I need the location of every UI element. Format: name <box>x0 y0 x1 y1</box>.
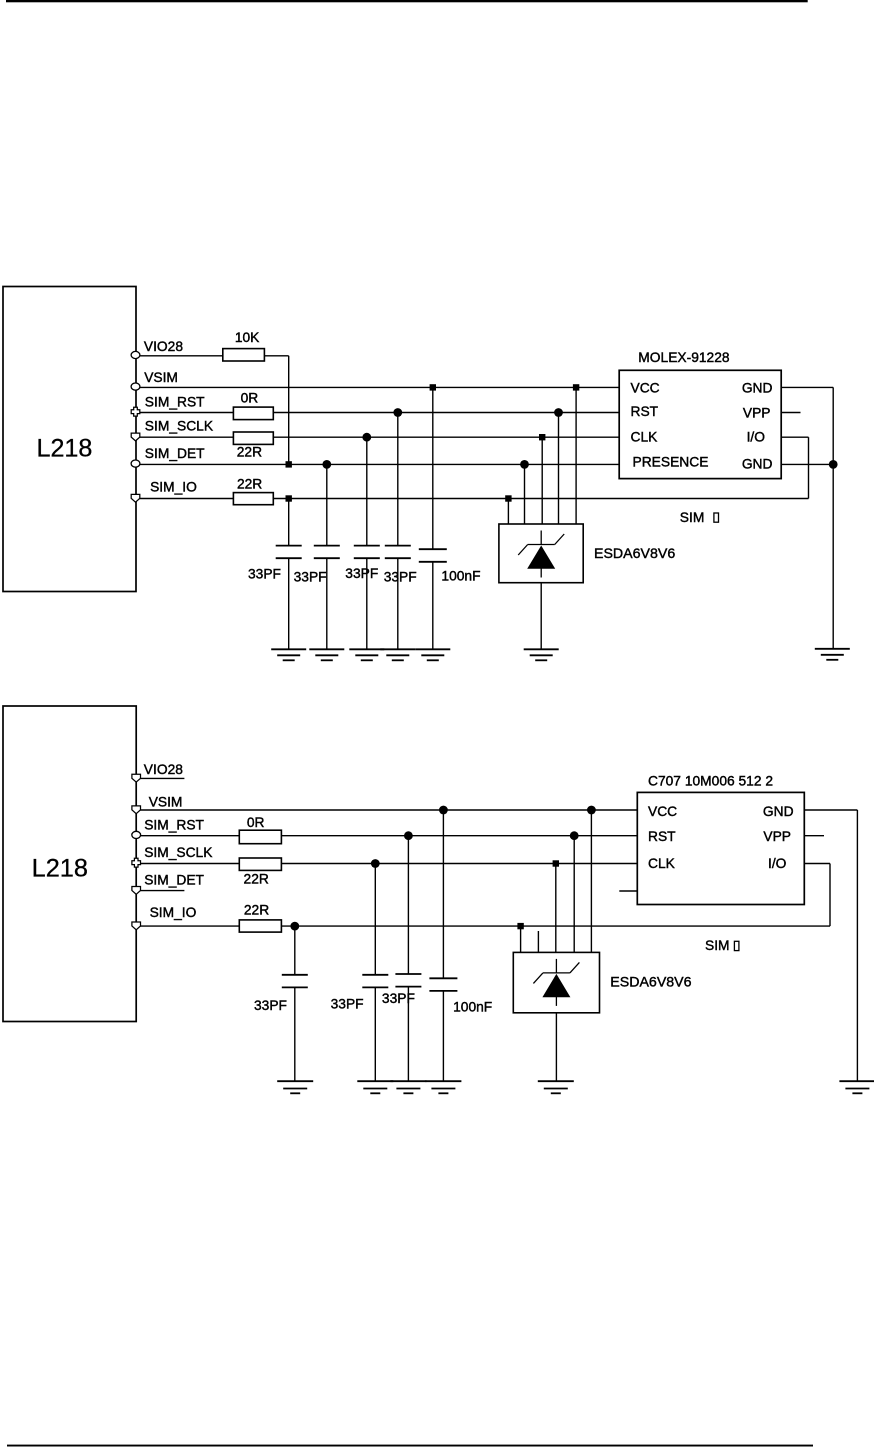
svg-text:L218: L218 <box>36 435 92 463</box>
junction SIM_IO / C1 <box>286 495 292 501</box>
svg-text:RST: RST <box>648 829 676 844</box>
TVS D2 ESDA6V8V6 body <box>513 952 599 1012</box>
svg-text:SIM_DET: SIM_DET <box>144 873 204 888</box>
top horizontal rule <box>6 0 808 2</box>
capacitor C5 100nF <box>419 549 447 562</box>
ground GND rail 2 <box>839 1081 874 1093</box>
wire C9 bottom <box>442 991 444 1081</box>
wire C1 top <box>288 499 290 546</box>
wire GND rail vertical <box>832 387 834 648</box>
wire C5 top <box>432 387 434 549</box>
pin marker VIO28 2 <box>132 774 141 782</box>
wire VSIM net <box>140 386 620 388</box>
capacitor C3 33PF <box>354 546 380 559</box>
wire J2 GND to rail <box>804 809 858 811</box>
junction SIM_RST / C8 <box>404 831 413 840</box>
bottom horizontal rule <box>7 1445 813 1447</box>
wire R6 to J2 CLK <box>281 863 637 865</box>
svg-text:22R: 22R <box>244 872 269 887</box>
wire J2 I/O horizontal <box>804 863 830 865</box>
wire D1 pin1 <box>507 499 509 525</box>
wire GND rail 2 vertical <box>856 810 858 1081</box>
svg-text:33PF: 33PF <box>382 991 415 1006</box>
junction VSIM / D1 <box>573 384 579 390</box>
pin marker SIM_DET 2 <box>132 887 141 895</box>
TVS D1 ESDA6V8V6 body <box>499 524 583 583</box>
ground C3 <box>349 649 384 660</box>
wire D2 ground pin <box>555 1013 557 1081</box>
wire D2 pin3 <box>555 864 557 953</box>
junction SIM_DET / D1 <box>520 460 529 469</box>
svg-text:100nF: 100nF <box>453 999 492 1014</box>
capacitor C2 33PF <box>314 546 340 559</box>
glyph box (SIM card CJK) <box>714 513 719 522</box>
TVS D1 ESDA6V8V6 TVS symbol <box>518 531 564 578</box>
wire SIM_IO pin to R4 <box>140 498 234 500</box>
resistor R2 0R <box>233 407 273 420</box>
wire VIO28 pin to R1 <box>140 355 223 357</box>
svg-text:100nF: 100nF <box>441 569 480 584</box>
resistor R7 22R <box>239 920 281 932</box>
svg-text:10K: 10K <box>235 330 260 345</box>
svg-text:I/O: I/O <box>747 430 766 445</box>
wire D1 ground pin <box>540 583 542 650</box>
svg-text:I/O: I/O <box>768 856 787 871</box>
svg-text:VSIM: VSIM <box>144 370 178 385</box>
pin marker SIM_RST <box>131 407 140 416</box>
wire C8 top <box>407 836 409 974</box>
wire C5 bottom <box>432 562 434 650</box>
junction SIM_DET / C2 <box>322 460 331 469</box>
capacitor C7 33PF <box>362 975 388 988</box>
wire J2 VPP stub <box>804 835 824 837</box>
svg-text:0R: 0R <box>247 815 265 830</box>
wire SIM_RST pin to R5 <box>140 835 239 837</box>
svg-text:33PF: 33PF <box>345 566 378 581</box>
junction SIM_IO / D1 <box>505 495 511 501</box>
junction SIM_SCLK / D1 <box>539 434 545 440</box>
svg-text:SIM_SCLK: SIM_SCLK <box>145 419 214 434</box>
junction SIM_RST / C4 <box>393 408 402 417</box>
svg-text:RST: RST <box>631 404 659 419</box>
wire VIO28 stub <box>140 777 184 779</box>
wire 10K pullup vertical <box>288 356 290 465</box>
junction SIM_RST / D2 <box>570 831 579 840</box>
svg-text:22R: 22R <box>244 902 269 917</box>
wire C6 bottom <box>294 987 296 1081</box>
wire J2 presence stub <box>619 890 637 892</box>
svg-text:MOLEX-91228: MOLEX-91228 <box>638 350 730 365</box>
junction VSIM / D2 <box>587 806 596 815</box>
svg-text:SIM: SIM <box>705 938 730 953</box>
wire D2 pin4 <box>573 836 575 953</box>
wire J1 I/O vertical <box>808 437 810 498</box>
wire J1 VPP stub <box>781 412 800 414</box>
capacitor C6 33PF <box>282 975 308 988</box>
svg-text:GND: GND <box>742 457 773 472</box>
capacitor C1 33PF <box>276 546 302 559</box>
pin marker VSIM 2 <box>132 806 141 814</box>
capacitor C9 100nF <box>429 978 457 991</box>
svg-text:VCC: VCC <box>648 804 677 819</box>
pin marker VIO28 <box>131 351 140 358</box>
svg-text:33PF: 33PF <box>294 570 327 585</box>
resistor R3 22R <box>233 432 273 444</box>
junction VSIM / C9 <box>439 806 448 815</box>
svg-text:C707 10M006 512 2: C707 10M006 512 2 <box>648 774 773 789</box>
svg-text:SIM_SCLK: SIM_SCLK <box>144 845 213 860</box>
pin marker SIM_IO 2 <box>132 922 141 930</box>
wire SIM_SCLK pin to R3 <box>140 436 234 438</box>
junction SIM_IO / C6 <box>290 922 299 931</box>
svg-text:22R: 22R <box>237 477 262 492</box>
ground GND rail <box>815 649 850 660</box>
svg-text:VSIM: VSIM <box>149 795 183 810</box>
svg-text:PRESENCE: PRESENCE <box>633 455 709 470</box>
wire J1 I/O horizontal <box>781 436 808 438</box>
svg-text:SIM_RST: SIM_RST <box>145 395 205 410</box>
ground C5 <box>415 649 450 660</box>
wire R1 to corner <box>264 355 288 357</box>
wire SIM_SCLK pin to R6 <box>140 863 239 865</box>
svg-text:L218: L218 <box>32 855 88 883</box>
resistor R4 22R <box>233 493 273 505</box>
wire SIM_RST pin to R2 <box>140 412 234 414</box>
junction GND rail / J1 GND bottom <box>829 460 838 469</box>
ground C1 <box>271 649 306 660</box>
wire J1 GND bottom <box>781 463 833 465</box>
wire D2 pin1 <box>520 926 522 952</box>
resistor R5 0R <box>239 830 281 844</box>
svg-text:VPP: VPP <box>743 405 771 420</box>
svg-text:33PF: 33PF <box>248 567 281 582</box>
wire C2 top <box>326 464 328 545</box>
wire SIM_DET stub <box>140 890 184 892</box>
wire SIM_IO net <box>273 498 808 500</box>
svg-text:33PF: 33PF <box>254 998 287 1013</box>
ground D2 <box>538 1081 574 1093</box>
wire C8 bottom <box>407 987 409 1082</box>
pin marker SIM_SCLK 2 <box>132 858 141 867</box>
wire C3 bottom <box>366 558 368 649</box>
wire C7 bottom <box>374 987 376 1081</box>
glyph box (SIM card CJK) 2 <box>734 941 739 950</box>
wire R5 to J2 RST <box>281 835 637 837</box>
svg-text:ESDA6V8V6: ESDA6V8V6 <box>594 546 675 562</box>
junction SIM_SCLK / C3 <box>362 433 371 442</box>
pin marker SIM_SCLK <box>131 433 140 441</box>
svg-text:VPP: VPP <box>763 829 791 844</box>
svg-text:33PF: 33PF <box>331 997 364 1012</box>
connector J1 MOLEX-91228 body <box>619 370 781 478</box>
svg-text:VIO28: VIO28 <box>144 339 183 354</box>
wire D1 pin3 <box>541 437 543 524</box>
svg-text:CLK: CLK <box>648 856 676 871</box>
wire C3 top <box>366 437 368 545</box>
ground C4 <box>380 649 415 660</box>
pin marker VSIM <box>131 383 140 390</box>
svg-text:0R: 0R <box>241 391 259 406</box>
wire D2 pin2 stub <box>537 931 539 952</box>
ground C7 <box>357 1081 393 1093</box>
wire SIM_IO pin to R7 <box>140 925 239 927</box>
svg-text:CLK: CLK <box>631 429 659 444</box>
IC U1 L218 body <box>3 287 136 592</box>
wire C7 top <box>374 864 376 975</box>
svg-text:SIM_IO: SIM_IO <box>150 480 197 495</box>
svg-text:GND: GND <box>763 804 794 819</box>
wire J1 GND top to GND rail <box>781 386 833 388</box>
resistor R6 22R <box>239 858 281 870</box>
svg-text:SIM_RST: SIM_RST <box>144 818 204 833</box>
junction VSIM / C5 <box>430 384 436 390</box>
capacitor C8 33PF <box>395 974 421 987</box>
resistor R1 10K <box>223 349 265 361</box>
wire C1 bottom <box>288 558 290 649</box>
svg-text:SIM_DET: SIM_DET <box>145 446 205 461</box>
ground C8 <box>390 1081 426 1093</box>
wire D1 pin2 <box>524 464 526 524</box>
pin marker SIM_RST 2 <box>132 831 141 838</box>
junction SIM_SCLK / D2 <box>553 860 559 866</box>
pin marker SIM_IO <box>131 494 140 502</box>
svg-text:VCC: VCC <box>631 380 660 395</box>
ground C9 <box>425 1081 461 1093</box>
wire D1 pin4 <box>558 413 560 525</box>
capacitor C4 33PF <box>385 546 411 559</box>
pin marker SIM_DET <box>131 460 140 467</box>
IC U2 L218 body <box>3 706 136 1022</box>
junction SIM_IO / D2 <box>517 923 523 929</box>
connector J2 C707 body <box>637 792 804 904</box>
wire C2 bottom <box>326 558 328 649</box>
ground C2 <box>309 649 344 660</box>
wire D1 pin5 <box>575 387 577 524</box>
wire J2 I/O vertical <box>829 864 831 927</box>
ground D1 <box>524 649 559 660</box>
svg-text:GND: GND <box>742 381 773 396</box>
wire SIM_DET net <box>140 463 620 465</box>
junction SIM_RST / D1 <box>554 408 563 417</box>
wire C4 top <box>397 413 399 546</box>
wire SIM_IO net 2 <box>281 925 830 927</box>
svg-text:SIM: SIM <box>680 510 705 525</box>
svg-text:22R: 22R <box>237 444 262 459</box>
TVS D2 ESDA6V8V6 TVS symbol <box>533 959 579 1006</box>
junction SIM_DET / 10K pullup <box>286 461 292 467</box>
wire R3 to J1 CLK <box>273 436 619 438</box>
svg-text:VIO28: VIO28 <box>144 762 183 777</box>
svg-text:ESDA6V8V6: ESDA6V8V6 <box>610 974 691 990</box>
ground C6 <box>277 1081 313 1093</box>
wire D2 pin5 <box>590 810 592 952</box>
svg-text:33PF: 33PF <box>384 570 417 585</box>
wire R2 to J1 RST <box>273 412 619 414</box>
wire VSIM net 2 <box>140 809 637 811</box>
wire C9 top <box>442 810 444 978</box>
svg-text:SIM_IO: SIM_IO <box>150 905 197 920</box>
junction SIM_SCLK / C7 <box>371 859 380 868</box>
wire C6 top <box>294 926 296 975</box>
wire C4 bottom <box>397 558 399 649</box>
